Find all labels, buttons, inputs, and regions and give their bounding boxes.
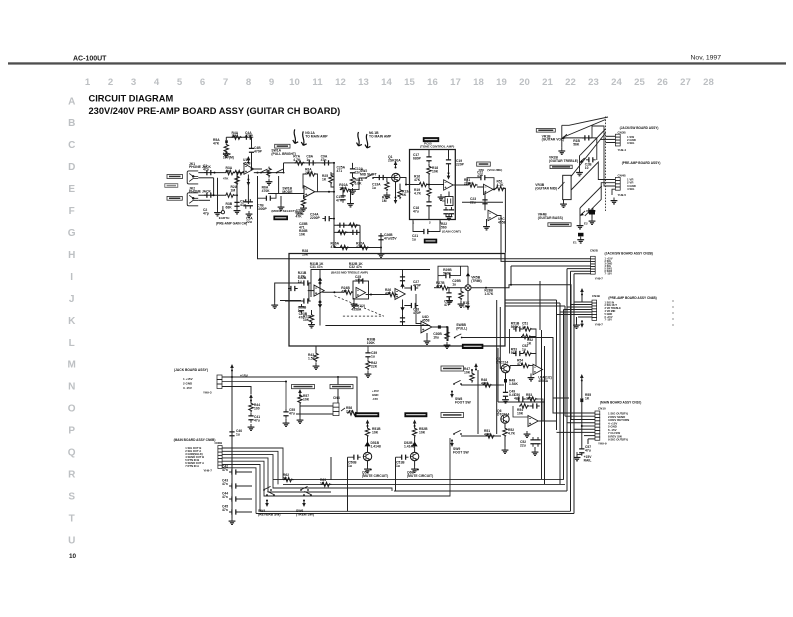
resistor R42 [366,360,370,371]
svg-text:16V(M): 16V(M) [223,155,234,159]
switch SW1B [276,169,285,174]
svg-text:47K: 47K [341,289,348,293]
op-amp U2B [484,184,494,194]
wire stage Y feed [396,456,399,458]
svg-text:47u/25V: 47u/25V [384,236,397,240]
wire stub 2 [331,184,334,187]
resistor R47 [470,372,474,383]
resistor R33 [343,290,354,294]
svg-text:10K: 10K [299,232,306,236]
svg-text:L: L [69,338,75,349]
capacitor C33b [288,286,298,291]
wire [380,248,382,252]
wire [426,333,428,338]
svg-text:(GUITAR BASS): (GUITAR BASS) [538,216,563,220]
bus return 4 [283,483,565,485]
svg-text:4.7K: 4.7K [414,191,422,195]
label MUTE B [405,413,428,418]
svg-text:1u: 1u [452,282,456,286]
wire [577,452,582,454]
svg-text:22: 22 [565,77,576,88]
ground [589,218,596,224]
switch SW2 [365,174,374,179]
svg-text:E: E [68,184,75,195]
wire [530,374,532,375]
ground [411,466,418,472]
wire bus link [553,397,569,399]
svg-text:47K: 47K [481,381,488,385]
svg-text:470K: 470K [262,189,271,193]
svg-text:20: 20 [519,77,530,88]
diode D2 [412,442,417,446]
wire to bus via edge [462,337,505,339]
capacitor C9 [264,196,274,201]
wire CN2 pin5 run [222,438,450,496]
wire jack2 tip [198,194,224,196]
capacitor C35 [356,278,366,283]
op-amp U4D [421,321,432,333]
ground [524,431,531,437]
resistor R21 [467,183,478,187]
trim potentiometer VR5 [465,285,471,291]
svg-text:TO MAIN AMP: TO MAIN AMP [369,134,392,138]
svg-text:+15V: +15V [240,374,249,378]
node +15V f [413,420,417,428]
svg-text:1u: 1u [298,279,302,283]
svg-text:1K: 1K [283,476,288,480]
svg-text:220K: 220K [305,171,314,175]
svg-text:FOOT SW: FOOT SW [453,450,469,454]
capacitor C49b [513,326,523,331]
svg-text:10K: 10K [517,411,524,415]
ground [347,201,354,207]
ground [271,302,278,308]
wire CN2 pin7 run [222,468,256,514]
wire stage X feed [348,456,352,458]
connector CN2 [218,446,222,469]
wire CN2 pin1 run [222,448,283,480]
svg-text:1u: 1u [522,325,526,329]
capacitor C2 [204,193,214,198]
svg-text:1u: 1u [396,464,400,468]
transistor Q5 [501,364,509,372]
svg-text:Nov, 1997: Nov, 1997 [691,55,722,62]
wire CN8 pin4 feed [564,309,593,311]
svg-text:220P: 220P [456,162,465,166]
svg-text:220K: 220K [526,396,535,400]
resistor R23 [495,186,506,190]
svg-text:1000P: 1000P [257,207,267,211]
wire [509,366,511,369]
U4B feedback loop box [353,281,369,299]
svg-text:2.2K: 2.2K [298,274,306,278]
transistor Q4 [410,452,418,460]
header rule [8,62,786,64]
wire [587,439,589,444]
svg-text:47u: 47u [289,411,295,415]
label EQ [423,137,439,142]
svg-text:C31 47n: C31 47n [310,265,323,269]
resistor R50b [521,334,532,338]
crease marks [672,300,674,326]
ground [313,363,320,369]
resistor R10 [301,197,305,208]
wire VR3 to CNB pin 1 [571,162,615,190]
label BRIGHT [275,144,290,148]
svg-text:47K: 47K [484,432,491,436]
svg-text:12: 12 [335,77,346,88]
svg-text:5: 5 [177,77,183,88]
wire [532,354,537,366]
resistor R16 [359,245,370,249]
svg-text:14: 14 [381,77,392,88]
bus return 1 [273,479,564,481]
svg-text:11: 11 [312,77,323,88]
svg-text:DTC114: DTC114 [497,412,509,416]
wire send line to CN5 pin1 [258,176,591,259]
svg-text:J: J [69,294,75,305]
wire [303,195,305,197]
wire pot diagonal 4 [580,186,602,208]
capacitor C14 [376,175,386,180]
ground [365,371,372,377]
capacitor C3 [234,200,239,210]
svg-text:A: A [68,96,75,107]
capacitor C1 [204,170,214,175]
svg-text:FOOT SW: FOOT SW [455,400,471,404]
capacitor C18 [426,199,431,209]
svg-text:(TRIM): (TRIM) [471,279,481,283]
switch SW7 [303,491,312,496]
svg-text:1u: 1u [306,158,310,162]
wire [315,346,317,352]
electrolytic capacitor C43 [438,325,441,328]
svg-text:CN4B: CN4B [618,173,627,177]
wire pot diagonal 2 [580,129,606,155]
ground [560,201,567,207]
bus wire E2 [505,302,560,304]
bus vertical F [570,271,572,511]
wire sw to Q5 [461,384,501,386]
capacitor C41 [443,273,453,278]
svg-text:7 -15V: 7 -15V [605,273,613,276]
wire to U2B [477,186,484,188]
resistor R15 [339,245,350,249]
wiper arrows on trim column [466,266,470,310]
capacitor C37 [400,315,405,325]
svg-text:T: T [69,513,75,524]
label TREBLE [548,223,571,227]
wire U4D out [432,327,448,341]
wire CN5 pin3 drop [510,266,512,285]
wire U4A out [322,291,343,293]
node +15V i [580,374,584,382]
op-amp U2C [488,210,498,220]
wire [239,471,252,473]
bus wire E3 [505,305,565,307]
wire sw up to rail [283,163,285,173]
wire [285,419,287,420]
ground [577,223,584,229]
wire U1B fb loop [303,174,306,189]
wire [239,511,252,513]
label GAIN [536,129,555,133]
svg-text:MID SHIFT: MID SHIFT [360,172,377,176]
wire [367,346,369,350]
svg-text:1.07K: 1.07K [484,292,494,296]
resistor R44 [249,402,253,413]
svg-text:47p: 47p [203,211,209,215]
svg-text:47n: 47n [321,158,327,162]
capacitor C25 [586,208,596,213]
potentiometer VR4 [580,208,585,223]
wire sub row 2 [334,231,360,233]
node V+ arrow [247,156,251,164]
node +15V k [580,288,584,296]
wire Q5 base [500,368,501,370]
wire CN5 pin7 feed [574,273,591,275]
svg-text:560K: 560K [511,325,520,329]
svg-text:47n: 47n [336,198,342,202]
svg-text:100K: 100K [367,341,376,345]
wire [453,266,461,275]
wire EQ in 2 [285,300,301,302]
svg-text:4558: 4558 [243,161,251,165]
wire [231,429,233,518]
capacitor C23 [482,197,487,207]
wire [428,206,430,220]
resistor R43b [314,352,318,363]
connector CN1 [217,375,222,389]
svg-text:(BASS MID TREBLE AMP): (BASS MID TREBLE AMP) [331,270,368,274]
svg-text:26: 26 [657,77,668,88]
wire [438,275,443,277]
wire VR4 to CNB pin 2 [585,183,616,216]
resistor R18 [427,165,431,176]
jack J2 [187,193,198,206]
svg-text:47K: 47K [213,141,220,145]
resistor R1 [225,170,236,174]
svg-text:56K: 56K [573,143,580,147]
wire ladder [532,329,537,337]
svg-text:TO MAIN AMP: TO MAIN AMP [305,134,328,138]
svg-text:(GUITAR VOL): (GUITAR VOL) [542,138,565,142]
capacitor C41 [248,413,253,423]
label VOL [477,162,491,166]
wire pot diagonal 1b [563,120,606,138]
wire CN2 pin6 run [222,465,260,512]
ground [349,188,356,194]
wire CN3 pin6 feed [574,428,595,430]
wire [404,287,408,289]
wire [448,192,450,197]
capacitor C44 [229,496,239,501]
wire CN2 pin3 run [222,455,392,491]
svg-text:S: S [68,491,75,502]
wire U4B out [366,294,387,296]
wire U2C out to CN5 pin2 [498,216,591,262]
svg-text:2 GND: 2 GND [183,382,193,386]
wire CNA pin2 [600,138,615,140]
capacitor C40 [229,429,234,439]
svg-text:47K: 47K [385,291,392,295]
bus vertical G [573,274,575,514]
svg-text:470P: 470P [413,311,422,315]
svg-text:2SK30A: 2SK30A [388,158,401,162]
capacitor C55 [283,409,288,419]
node U1A out junction [257,172,259,174]
svg-text:CN4B: CN4B [592,294,600,298]
capacitor C13 [350,166,355,176]
label LOW input [167,196,182,200]
wire U2A out [453,184,467,186]
svg-text:(GUITAR MID): (GUITAR MID) [535,186,557,190]
svg-text:220K: 220K [464,181,473,185]
wire [446,327,448,338]
wire signal into box [410,184,419,186]
label FOOT SW [274,216,288,220]
svg-text:(REVERB SW): (REVERB SW) [258,512,280,516]
wire [428,197,430,199]
resistor R13 [385,181,389,192]
potentiometer VR7 (treble) column [400,270,404,326]
bus vertical E [566,269,568,491]
node V- arrow [247,179,251,187]
wire input join [308,283,310,301]
wire to CNB pin 3 [592,126,615,186]
wire CNA pin1 [606,135,616,137]
svg-text:(TONE CONTROL AMP): (TONE CONTROL AMP) [420,145,454,149]
svg-text:21: 21 [542,77,553,88]
wire U1A input [237,172,244,174]
wire [352,163,354,166]
capacitor C49c [513,351,523,356]
wire CN3 pin5 feed [582,425,595,427]
wire Q4 emitter [414,461,416,466]
node +15V g [474,363,478,371]
wire Q1 to EQ box [400,178,410,185]
capacitor C38 [409,285,419,290]
node -15V c [265,500,269,508]
wire stage X feed drop [347,457,349,511]
resistor R63 [321,482,332,486]
svg-text:AC-100UT: AC-100UT [73,56,107,63]
wire ladder left [509,329,511,354]
svg-text:47K: 47K [414,178,421,182]
resistor R40 [459,290,463,301]
wire CN3 pin7 feed [557,431,596,433]
ground [574,454,581,460]
node +15V supply [230,364,234,372]
svg-text:6: 6 [200,77,205,88]
wire bias [448,150,450,158]
wire [311,310,313,314]
potentiometer VR1 [562,125,567,148]
wire [414,437,416,442]
wire [239,485,252,487]
capacitor C39 [365,350,370,360]
op-amp U5A [533,364,543,374]
node -15V d [302,500,306,508]
svg-text:3 SIG: 3 SIG [627,141,635,145]
svg-text:1u: 1u [371,354,375,358]
wire supply drop 2 [581,402,583,446]
wire [449,287,465,289]
svg-text:471: 471 [337,169,343,173]
capacitor C40 [299,304,304,314]
electrolytic capacitor C48a [504,379,507,383]
resistor R53 [527,397,538,401]
switch SW1A [260,169,269,174]
ground [351,301,358,307]
svg-text:2.2K: 2.2K [346,409,354,413]
bus vertical B [559,303,561,484]
capacitor C22 [478,175,488,180]
bus wire 10 [541,330,543,479]
wire [350,190,352,201]
capacitor C50 [516,396,526,401]
svg-text:4 SIG: 4 SIG [627,187,635,191]
svg-text:CIRCUIT DIAGRAM: CIRCUIT DIAGRAM [89,94,174,104]
node +15V feed [394,161,398,169]
wire [477,370,479,434]
wire jack2 ring [198,199,210,201]
wire jack1 ring [198,177,213,179]
label VOLUME [550,165,572,168]
wire to U4D [416,294,421,324]
wire CN2 pin4 run [222,458,331,492]
wire bright tap [258,197,264,199]
svg-text:47K: 47K [223,177,229,181]
ground [611,198,618,204]
svg-text:(VOLUME): (VOLUME) [487,168,502,172]
svg-text:YH9-9: YH9-9 [598,442,607,446]
wire CN1 pin3 [222,387,251,395]
ground [458,301,465,307]
resistor R7 [267,167,271,178]
ground [444,342,451,348]
wire [251,152,253,169]
svg-text:470P: 470P [245,134,254,138]
node +15V b [249,394,253,402]
svg-text:1M: 1M [232,134,237,138]
svg-text:4.7K: 4.7K [508,431,516,435]
wire [414,446,416,452]
ground [446,298,453,304]
capacitor C10 [306,160,316,165]
gang dashed link [334,296,383,316]
svg-text:(GUITAR TREBLE): (GUITAR TREBLE) [549,159,578,163]
wire to ground [217,178,219,210]
resistor R18 [337,230,348,234]
wire [280,196,282,204]
svg-text:4558A: 4558A [538,379,548,383]
svg-text:(TREM SW): (TREM SW) [296,512,314,516]
svg-text:R50: R50 [479,168,485,172]
capacitor C18 [378,233,383,243]
svg-text:O: O [68,404,76,415]
switch SW6 [300,486,309,491]
label EFFECT RETURN [330,385,353,389]
wire sw to Q6 [461,435,501,437]
svg-text:(PRE-AMP BOARD ASSY CN4B): (PRE-AMP BOARD ASSY CN4B) [608,296,656,300]
resistor R35 [309,314,313,325]
wire U5B fb [537,399,543,421]
resistor R6 [234,170,245,174]
wire column vertical 2 [499,307,501,369]
svg-text:4.7K: 4.7K [497,183,505,187]
svg-text:CN4: CN4 [333,396,340,400]
